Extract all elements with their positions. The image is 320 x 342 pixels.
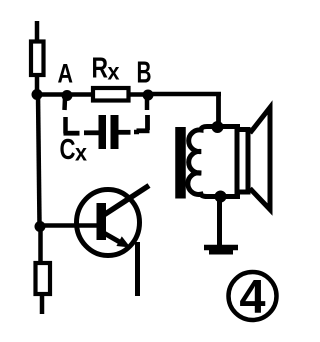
svg-text:R: R: [92, 53, 109, 85]
svg-text:x: x: [108, 59, 120, 85]
svg-text:B: B: [137, 55, 152, 90]
svg-text:C: C: [60, 134, 76, 166]
svg-text:x: x: [75, 140, 87, 166]
svg-text:4: 4: [239, 270, 265, 323]
svg-text:A: A: [58, 59, 74, 89]
